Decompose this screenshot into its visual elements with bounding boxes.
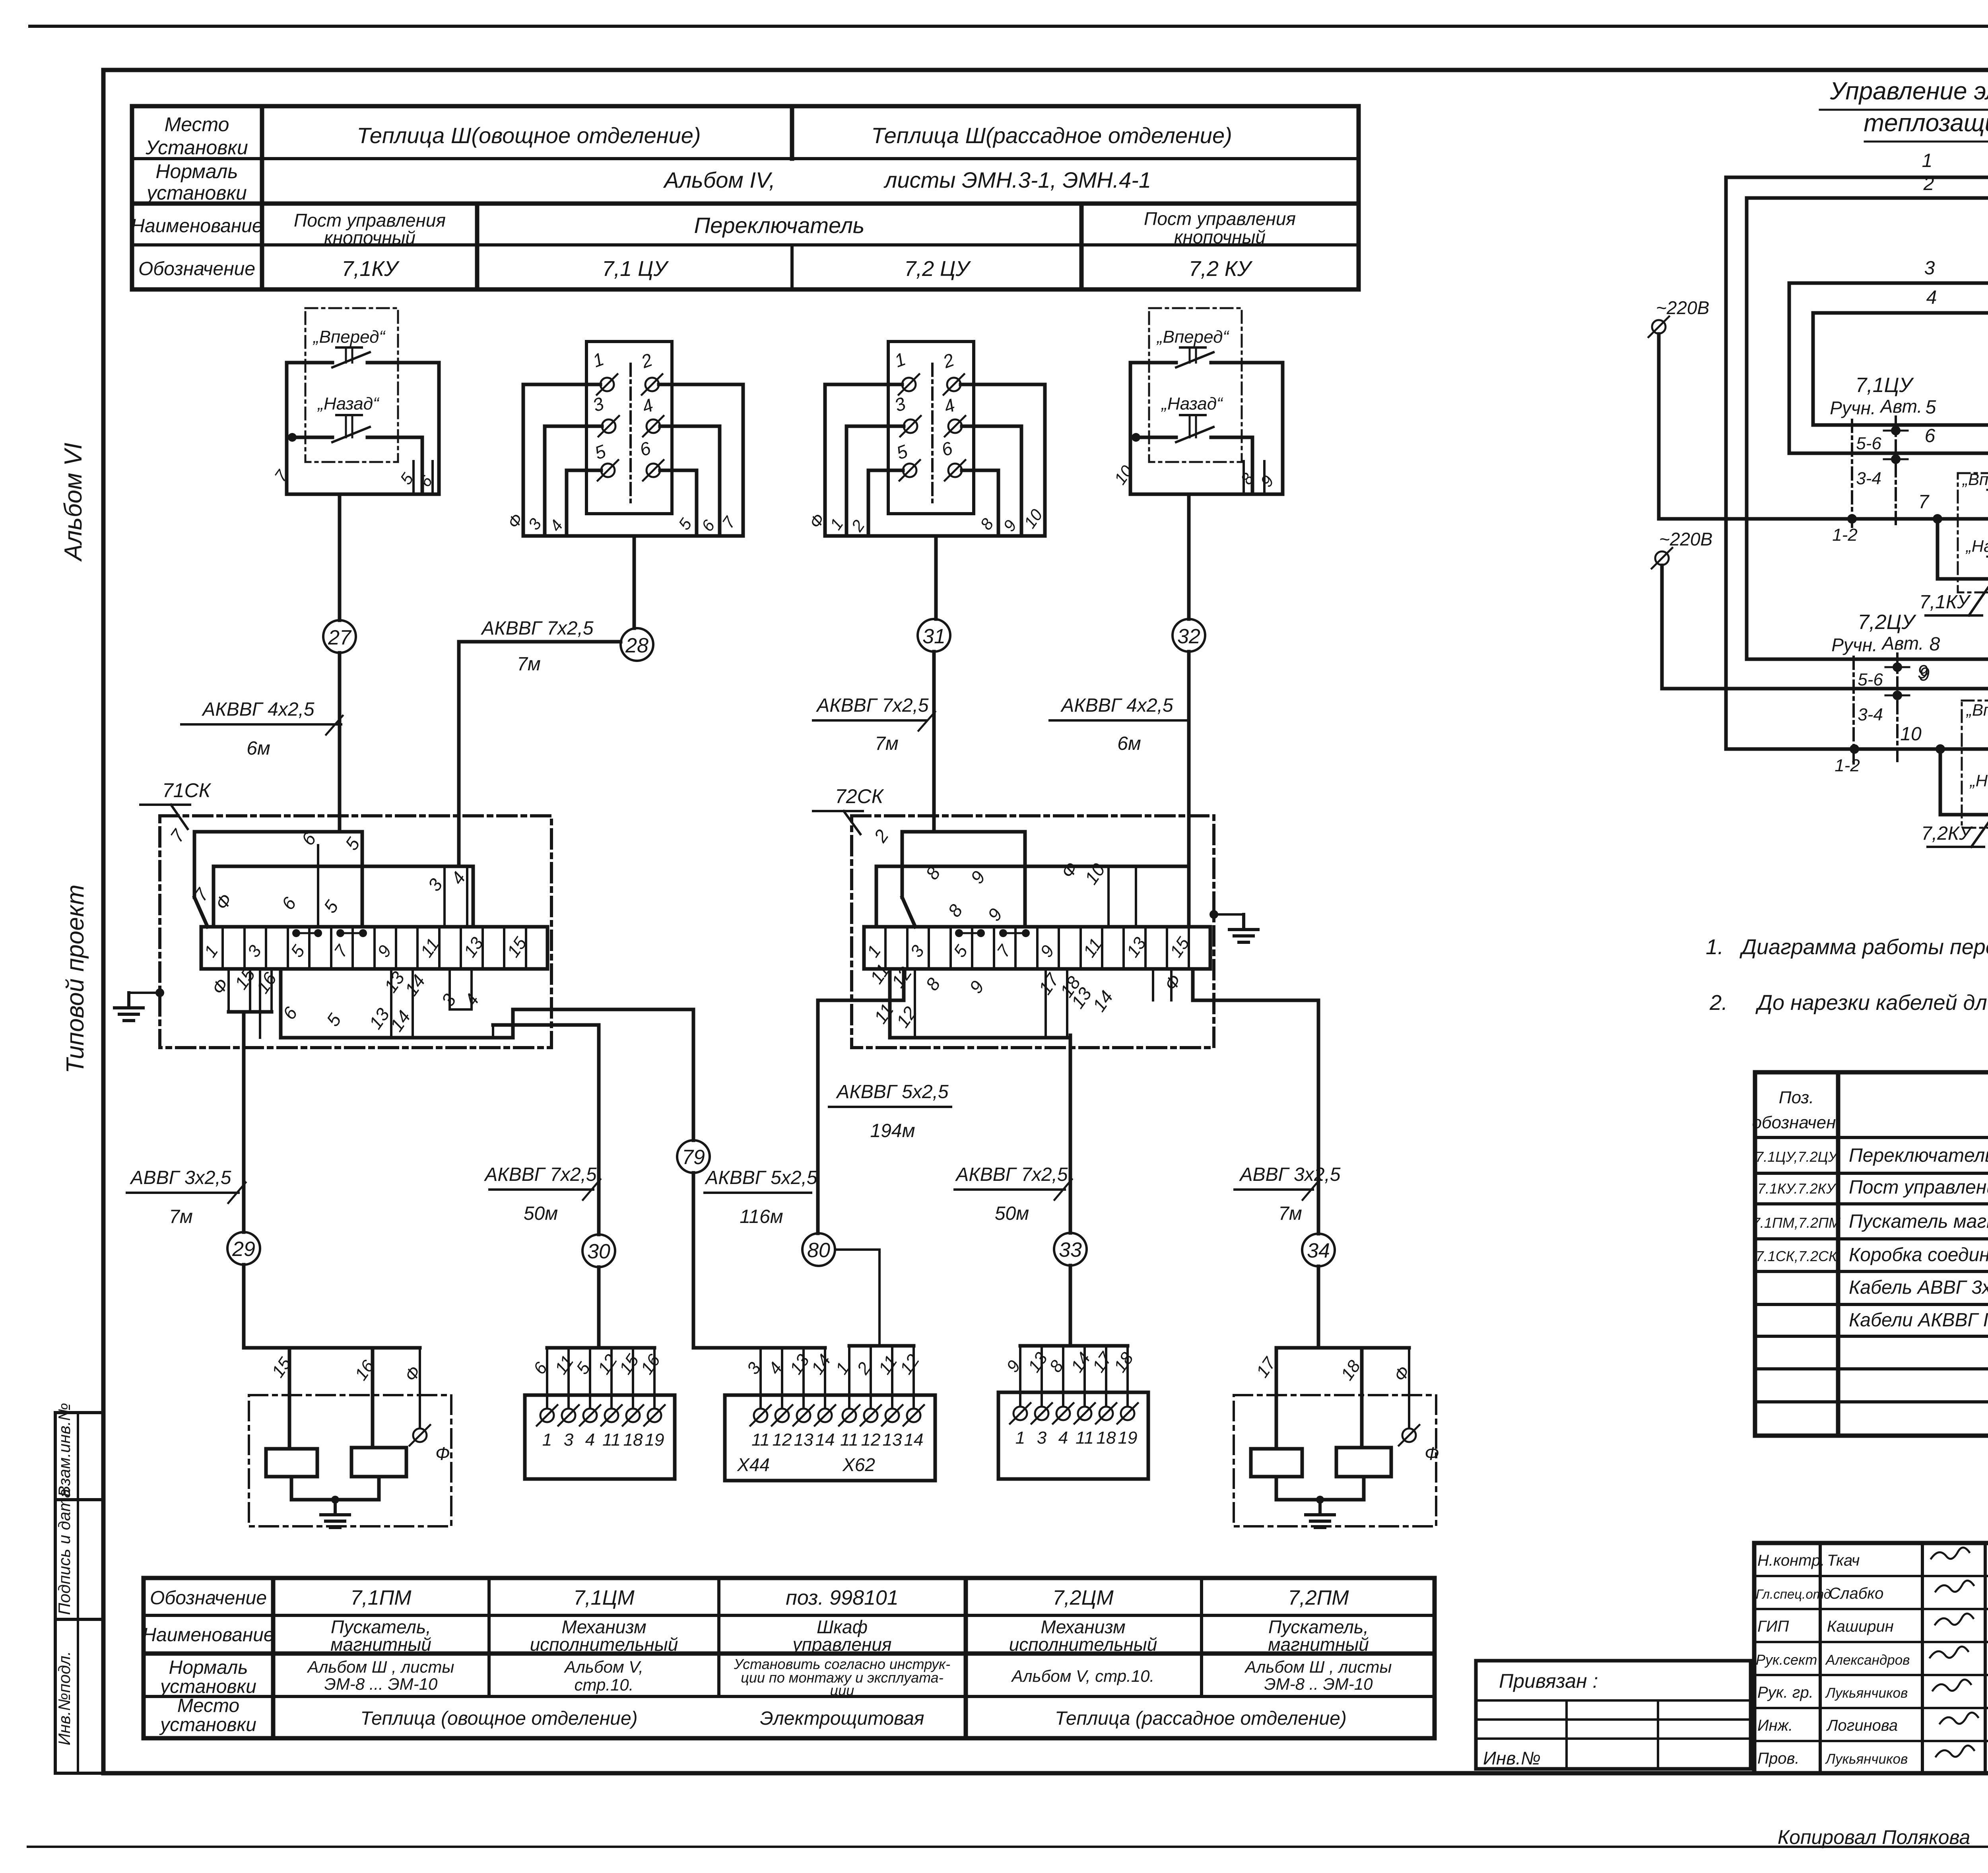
svg-text:11: 11 <box>840 1430 858 1450</box>
svg-text:АКВВГ 7х2,5: АКВВГ 7х2,5 <box>955 1164 1068 1185</box>
svg-text:Пускатель магнитный.: Пускатель магнитный. <box>1849 1211 1988 1232</box>
svg-text:14: 14 <box>815 1430 835 1450</box>
node 27 <box>323 620 356 653</box>
svg-text:исполнительный: исполнительный <box>1009 1634 1157 1655</box>
svg-text:Альбом V,: Альбом V, <box>563 1658 643 1676</box>
svg-text:8: 8 <box>1237 470 1258 488</box>
svg-text:6: 6 <box>1925 425 1936 446</box>
node 79 <box>677 1140 710 1173</box>
svg-text:7м: 7м <box>875 733 899 754</box>
svg-text:обозначен.: обозначен. <box>1752 1113 1840 1132</box>
svg-text:Авт.: Авт. <box>1881 633 1924 654</box>
svg-text:4: 4 <box>585 1430 595 1450</box>
svg-text:Н.контр.: Н.контр. <box>1757 1552 1825 1569</box>
svg-text:„Вперед“: „Вперед“ <box>1962 470 1988 489</box>
wire 72СК to node 33 <box>1069 1035 1072 1233</box>
jumpers <box>955 929 963 937</box>
svg-text:Пост управления кнопочный ПКЕ: Пост управления кнопочный ПКЕ 222-2 <box>1849 1177 1988 1198</box>
svg-text:АКВВГ 5х2,5: АКВВГ 5х2,5 <box>704 1167 817 1188</box>
svg-text:Х44: Х44 <box>737 1454 770 1475</box>
wire Назад 7,2 <box>1940 749 1988 815</box>
svg-text:ГИП: ГИП <box>1757 1618 1789 1635</box>
wire riser 3 to 6 <box>1788 283 1791 453</box>
svg-text:Нормаль: Нормаль <box>155 160 238 182</box>
svg-text:7.1ПМ,7.2ПМ: 7.1ПМ,7.2ПМ <box>1752 1215 1840 1231</box>
wire from node 32 to box 72СК <box>1187 652 1191 866</box>
svg-text:7.1ЦУ,7.2ЦУ: 7.1ЦУ,7.2ЦУ <box>1755 1149 1839 1165</box>
svg-text:5: 5 <box>322 1010 346 1030</box>
svg-text:АКВВГ 7х2,5: АКВВГ 7х2,5 <box>483 1164 597 1185</box>
svg-text:7.1СК,7.2СК: 7.1СК,7.2СК <box>1756 1248 1838 1264</box>
svg-text:Ф: Ф <box>1425 1443 1439 1464</box>
svg-text:12: 12 <box>892 1003 921 1031</box>
svg-text:9: 9 <box>1037 942 1058 961</box>
svg-text:3: 3 <box>244 941 265 961</box>
svg-text:34: 34 <box>1307 1239 1330 1262</box>
parts list table <box>1755 1072 1988 1436</box>
svg-text:6м: 6м <box>1117 733 1141 754</box>
svg-text:1: 1 <box>200 942 222 961</box>
wire from node 28 to box 71СК <box>457 642 461 866</box>
svg-text:14: 14 <box>1089 987 1117 1015</box>
svg-text:Рук. гр.: Рук. гр. <box>1757 1684 1813 1701</box>
svg-text:5: 5 <box>675 515 695 534</box>
push-button station 7,2КУ <box>1110 308 1283 494</box>
svg-text:Лукьянчиков: Лукьянчиков <box>1825 1751 1908 1767</box>
svg-text:Альбом Ш , листы: Альбом Ш , листы <box>307 1658 454 1676</box>
svg-text:Инж.: Инж. <box>1757 1717 1793 1734</box>
wire 3 <box>1789 281 1988 285</box>
svg-text:3: 3 <box>1924 258 1935 279</box>
svg-text:2: 2 <box>870 826 893 846</box>
svg-text:установки: установки <box>159 1714 256 1735</box>
svg-text:поз. 998101: поз. 998101 <box>786 1586 899 1609</box>
svg-text:листы ЭМН.3-1, ЭМН.4-1: листы ЭМН.3-1, ЭМН.4-1 <box>883 167 1151 192</box>
svg-text:4: 4 <box>941 394 958 417</box>
svg-text:4: 4 <box>546 516 567 535</box>
wire 7 <box>1659 334 1988 519</box>
svg-text:Альбом Ш , листы: Альбом Ш , листы <box>1244 1658 1392 1676</box>
svg-text:Копировал Полякова: Копировал Полякова <box>1778 1826 1971 1848</box>
svg-text:Теплица (овощное отделение): Теплица (овощное отделение) <box>360 1708 637 1729</box>
wire 71СК to node 29 <box>242 1012 246 1232</box>
svg-text:6м: 6м <box>247 738 270 759</box>
svg-text:кнопочный: кнопочный <box>324 227 415 248</box>
svg-text:Взам.инв.№: Взам.инв.№ <box>55 1403 74 1497</box>
svg-text:Место: Место <box>177 1695 239 1716</box>
svg-text:8: 8 <box>944 901 967 921</box>
svg-text:11: 11 <box>870 1000 898 1027</box>
svg-text:10: 10 <box>1900 724 1922 745</box>
wire 71СК to node 79 <box>692 1009 695 1140</box>
svg-text:72СК: 72СК <box>835 785 884 807</box>
svg-text:1: 1 <box>1922 150 1933 171</box>
svg-text:Альбом VI: Альбом VI <box>60 443 87 562</box>
svg-text:„Назад“: „Назад“ <box>1965 537 1988 555</box>
svg-text:3: 3 <box>424 875 447 895</box>
svg-text:6: 6 <box>278 893 301 914</box>
svg-text:116м: 116м <box>740 1206 783 1227</box>
terminal strip 72СК <box>864 927 1210 969</box>
svg-text:5: 5 <box>1926 397 1936 418</box>
svg-text:~220В: ~220В <box>1659 529 1712 549</box>
svg-text:„Назад“: „Назад“ <box>317 394 380 413</box>
svg-text:50м: 50м <box>995 1203 1029 1224</box>
wire 72СК to node 34 <box>1317 1000 1320 1234</box>
svg-text:Наименование: Наименование <box>131 215 262 237</box>
svg-text:27: 27 <box>328 626 352 649</box>
svg-text:Теплица (рассадное отделение): Теплица (рассадное отделение) <box>1055 1708 1347 1729</box>
internal traces top <box>194 832 362 927</box>
svg-text:2: 2 <box>638 349 655 372</box>
wire 5 <box>1813 425 1988 774</box>
svg-text:29: 29 <box>232 1238 255 1261</box>
svg-text:Пост управления: Пост управления <box>1144 208 1296 229</box>
node 30 <box>582 1234 615 1267</box>
junction box 72СК <box>852 816 1214 1048</box>
svg-text:3: 3 <box>590 393 607 416</box>
svg-text:Гл.спец.отд: Гл.спец.отд <box>1756 1587 1831 1601</box>
svg-text:1: 1 <box>863 942 885 961</box>
svg-text:11: 11 <box>751 1430 770 1450</box>
wire from node 27 to box 71СК <box>338 653 342 832</box>
svg-text:Место: Место <box>165 113 229 136</box>
svg-text:28: 28 <box>625 634 648 657</box>
svg-text:3-4: 3-4 <box>1858 705 1883 724</box>
svg-text:Логинова: Логинова <box>1826 1717 1898 1734</box>
svg-text:4: 4 <box>1926 287 1937 308</box>
svg-text:магнитный: магнитный <box>1268 1634 1369 1655</box>
svg-text:Ручн.: Ручн. <box>1831 635 1877 655</box>
svg-text:Слабко: Слабко <box>1829 1585 1883 1602</box>
svg-text:установки: установки <box>146 182 247 204</box>
svg-text:7м: 7м <box>517 654 541 675</box>
svg-text:31: 31 <box>922 625 945 648</box>
wire 8 <box>1747 658 1988 661</box>
svg-text:Типовой проект: Типовой проект <box>62 885 89 1073</box>
svg-text:Инв.№подл.: Инв.№подл. <box>55 1651 74 1745</box>
svg-text:1.: 1. <box>1706 935 1724 959</box>
sheet top edge <box>30 25 1988 28</box>
svg-text:80: 80 <box>807 1239 830 1262</box>
svg-text:3-4: 3-4 <box>1856 469 1881 488</box>
svg-text:АВВГ 3х2,5: АВВГ 3х2,5 <box>1239 1164 1341 1185</box>
bottom equipment table <box>142 1578 1435 1738</box>
svg-text:2: 2 <box>940 349 957 372</box>
svg-text:Управление электроприводами: Управление электроприводами <box>1830 78 1988 105</box>
svg-text:7: 7 <box>718 513 740 532</box>
svg-text:1: 1 <box>590 348 607 371</box>
svg-text:3: 3 <box>564 1430 574 1450</box>
wire 4 <box>1813 311 1988 315</box>
svg-text:5-6: 5-6 <box>1858 670 1883 689</box>
svg-text:6: 6 <box>939 437 955 460</box>
svg-text:3: 3 <box>892 393 909 416</box>
svg-text:7.1КУ.7.2КУ: 7.1КУ.7.2КУ <box>1757 1180 1837 1197</box>
svg-text:5: 5 <box>592 441 609 464</box>
svg-text:7,1ЦМ: 7,1ЦМ <box>573 1586 635 1609</box>
node 28 <box>621 628 653 661</box>
svg-text:„Назад“: „Назад“ <box>1161 394 1223 413</box>
svg-text:Ф: Ф <box>1160 970 1186 994</box>
svg-text:1-2: 1-2 <box>1832 525 1858 545</box>
svg-text:7,1КУ: 7,1КУ <box>342 257 400 281</box>
svg-text:Привязан :: Привязан : <box>1499 1670 1598 1692</box>
svg-text:установки: установки <box>159 1676 256 1697</box>
wire from node 31 to box 72СК <box>932 652 936 832</box>
svg-text:2: 2 <box>847 516 868 535</box>
svg-text:14: 14 <box>808 1351 835 1378</box>
svg-text:Альбом IV,: Альбом IV, <box>663 167 775 192</box>
svg-text:Установки: Установки <box>145 136 248 159</box>
svg-text:Ф: Ф <box>401 1363 425 1385</box>
node 33 <box>1054 1233 1087 1265</box>
wire 72СК to node 80 <box>816 1000 820 1233</box>
svg-text:16: 16 <box>637 1351 664 1378</box>
svg-text:14: 14 <box>401 971 429 1000</box>
ground 71СК <box>155 988 164 997</box>
svg-text:7: 7 <box>166 825 189 846</box>
svg-text:Ткач: Ткач <box>1827 1552 1860 1569</box>
svg-text:79: 79 <box>682 1146 705 1169</box>
svg-text:АКВВГ 7х2,5: АКВВГ 7х2,5 <box>815 695 929 716</box>
svg-text:18: 18 <box>623 1430 643 1450</box>
wire 6 <box>1789 453 1988 519</box>
svg-text:11: 11 <box>1076 1428 1094 1448</box>
svg-text:~220В: ~220В <box>1656 297 1709 318</box>
svg-text:7,2 КУ: 7,2 КУ <box>1189 257 1253 281</box>
wires out of 71СК <box>513 1008 693 1011</box>
svg-text:9: 9 <box>965 977 988 997</box>
wire 71СК to node 30 <box>597 1025 601 1234</box>
svg-text:9: 9 <box>374 942 395 961</box>
packet switch 7,2ЦУ <box>806 342 1046 536</box>
svg-text:8: 8 <box>1930 634 1940 655</box>
svg-text:Рук.сект: Рук.сект <box>1756 1652 1817 1668</box>
svg-text:Переключатель пакетный ПКП25-4: Переключатель пакетный ПКП25-44-13-У2 <box>1849 1145 1988 1166</box>
control cabinet terminals X44 X62 <box>693 1346 935 1481</box>
svg-text:Переключатель: Переключатель <box>694 213 865 238</box>
svg-text:33: 33 <box>1059 1238 1082 1262</box>
wire riser 1 to 10 <box>1724 177 1728 749</box>
svg-text:Инв.№: Инв.№ <box>1483 1748 1541 1768</box>
svg-text:АКВВГ 4х2,5: АКВВГ 4х2,5 <box>1060 695 1173 716</box>
svg-text:7,1КУ: 7,1КУ <box>1919 592 1971 613</box>
svg-text:7,2ЦУ: 7,2ЦУ <box>1858 611 1916 634</box>
svg-text:Х62: Х62 <box>842 1454 875 1475</box>
internal traces bottom <box>818 969 904 1000</box>
svg-text:17: 17 <box>1035 969 1064 998</box>
svg-text:Ф: Ф <box>435 1443 450 1464</box>
svg-text:АКВВГ 7х2,5: АКВВГ 7х2,5 <box>480 618 594 639</box>
svg-text:7: 7 <box>330 941 352 961</box>
svg-text:9: 9 <box>1000 516 1020 535</box>
svg-text:кнопочный: кнопочный <box>1174 227 1266 247</box>
svg-text:1: 1 <box>1015 1428 1025 1448</box>
svg-text:12: 12 <box>861 1430 881 1450</box>
svg-text:13: 13 <box>794 1430 813 1450</box>
svg-text:1: 1 <box>542 1430 552 1450</box>
svg-text:Александров: Александров <box>1825 1652 1910 1668</box>
svg-text:7: 7 <box>993 941 1015 961</box>
title block <box>1754 1543 1988 1773</box>
svg-text:7,1ЦУ: 7,1ЦУ <box>1855 374 1914 397</box>
jumpers <box>292 929 300 937</box>
svg-text:ЭМ-8 .. ЭМ-10: ЭМ-8 .. ЭМ-10 <box>1264 1675 1373 1693</box>
terminal strip 71СК <box>201 927 547 969</box>
svg-text:7,2ПМ: 7,2ПМ <box>1288 1586 1349 1609</box>
wire Назад 7,1 <box>1938 519 1988 579</box>
svg-text:194м: 194м <box>870 1120 915 1141</box>
push-button station 7,1КУ <box>271 308 439 494</box>
svg-text:9: 9 <box>1257 472 1277 490</box>
svg-text:11: 11 <box>602 1430 621 1450</box>
attachment box Привязан <box>1476 1661 1751 1769</box>
wire from 7,1КУ to node 27 <box>338 494 342 620</box>
svg-text:АВВГ 3х2,5: АВВГ 3х2,5 <box>130 1167 231 1188</box>
svg-text:Теплица Ш(овощное отделение): Теплица Ш(овощное отделение) <box>357 123 701 148</box>
svg-text:32: 32 <box>1177 625 1200 648</box>
junction box 71СК <box>160 816 551 1048</box>
svg-text:7м: 7м <box>1278 1203 1302 1224</box>
wire 9 <box>1662 565 1988 689</box>
svg-text:3: 3 <box>524 515 545 533</box>
svg-text:2.: 2. <box>1709 991 1728 1015</box>
svg-text:Кабель АВВГ 3х2,5 ГОСТ 16442-8: Кабель АВВГ 3х2,5 ГОСТ 16442-80 <box>1849 1277 1988 1298</box>
svg-text:18: 18 <box>1110 1349 1138 1376</box>
svg-text:Обозначение: Обозначение <box>150 1588 267 1609</box>
svg-text:Обозначение: Обозначение <box>138 258 255 279</box>
svg-text:Коробка соединительная КСК-16Т: Коробка соединительная КСК-16ТУ36.1073-7… <box>1849 1244 1988 1265</box>
svg-text:9: 9 <box>967 867 989 887</box>
svg-text:12: 12 <box>896 1351 923 1378</box>
svg-text:теплозащитного экрана.: теплозащитного экрана. <box>1864 109 1988 137</box>
terminal box 7,1ЦМ <box>525 1348 675 1479</box>
svg-text:„Вперед“: „Вперед“ <box>1966 701 1988 719</box>
svg-text:Диаграмма работы переключател: Диаграмма работы переключателей дана на … <box>1739 935 1988 959</box>
svg-text:ЭМ-8 ... ЭМ-10: ЭМ-8 ... ЭМ-10 <box>324 1675 438 1693</box>
svg-text:7: 7 <box>271 466 292 485</box>
top-left equipment table <box>131 106 1359 289</box>
svg-text:5-6: 5-6 <box>1856 434 1881 453</box>
svg-text:„Назад“: „Назад“ <box>1969 771 1988 790</box>
svg-text:14: 14 <box>904 1430 924 1450</box>
svg-text:Наименование: Наименование <box>142 1625 274 1646</box>
svg-text:исполнительный: исполнительный <box>530 1634 678 1655</box>
magnetic starter 7,1ПМ <box>244 1348 451 1528</box>
magnetic starter 7,2ПМ <box>1234 1348 1439 1528</box>
svg-text:Лукьянчиков: Лукьянчиков <box>1825 1685 1908 1701</box>
svg-text:Кабели АКВВГ ГОСТ 1508-78: Кабели АКВВГ ГОСТ 1508-78 <box>1849 1310 1988 1331</box>
svg-text:Ручн.: Ручн. <box>1830 398 1876 418</box>
svg-text:2: 2 <box>1923 173 1934 194</box>
wire 10 <box>1726 747 1988 751</box>
svg-text:Пров.: Пров. <box>1757 1750 1799 1767</box>
svg-text:5: 5 <box>320 897 343 917</box>
svg-text:„Вперед“: „Вперед“ <box>1156 327 1229 347</box>
svg-text:8: 8 <box>922 974 945 994</box>
svg-text:1-2: 1-2 <box>1835 756 1860 775</box>
node 80 <box>802 1233 835 1266</box>
svg-text:3: 3 <box>907 941 928 961</box>
left margin stamp boxes <box>55 1413 103 1773</box>
svg-text:Электрощитовая: Электрощитовая <box>760 1708 924 1729</box>
svg-text:13: 13 <box>883 1430 902 1450</box>
svg-text:Теплица Ш(рассадное отделение): Теплица Ш(рассадное отделение) <box>871 123 1232 148</box>
svg-text:До нарезки кабелей длины тр: До нарезки кабелей длины трасс уточнить … <box>1755 991 1988 1015</box>
svg-text:1: 1 <box>892 348 909 371</box>
packet switch 7,1ЦУ <box>504 342 743 536</box>
svg-text:Каширин: Каширин <box>1827 1618 1894 1635</box>
svg-text:Нормаль: Нормаль <box>169 1657 248 1678</box>
svg-text:50м: 50м <box>524 1203 558 1224</box>
push-button 7,1КУ <box>1958 473 1988 592</box>
svg-text:19: 19 <box>645 1430 664 1450</box>
wire 1 <box>1726 176 1988 179</box>
svg-text:19: 19 <box>1118 1428 1138 1448</box>
svg-text:7,2ЦМ: 7,2ЦМ <box>1052 1586 1114 1609</box>
svg-text:30: 30 <box>587 1240 610 1263</box>
wire from 7,2КУ to node 32 <box>1187 494 1191 619</box>
svg-text:5: 5 <box>287 941 309 961</box>
svg-text:12: 12 <box>773 1430 792 1450</box>
svg-text:АКВВГ 5х2,5: АКВВГ 5х2,5 <box>835 1081 949 1102</box>
svg-text:9: 9 <box>984 904 1006 925</box>
svg-text:7м: 7м <box>169 1206 193 1227</box>
svg-text:ции: ции <box>830 1682 854 1698</box>
svg-text:10: 10 <box>1110 462 1137 488</box>
svg-text:7,1ПМ: 7,1ПМ <box>350 1586 412 1609</box>
svg-text:7,2КУ: 7,2КУ <box>1921 823 1973 844</box>
svg-text:9: 9 <box>1919 664 1930 685</box>
svg-text:Ф: Ф <box>1390 1363 1414 1385</box>
svg-text:5: 5 <box>950 941 971 961</box>
svg-text:4: 4 <box>1058 1428 1068 1448</box>
terminal box 7,2ЦМ <box>998 1346 1148 1479</box>
svg-text:7,1 ЦУ: 7,1 ЦУ <box>602 257 669 281</box>
svg-text:стр.10.: стр.10. <box>575 1675 634 1694</box>
ground 72СК <box>1209 910 1218 919</box>
wire riser 2 to 8 <box>1745 198 1749 659</box>
svg-text:7: 7 <box>1918 491 1930 512</box>
svg-text:8: 8 <box>977 515 997 534</box>
svg-text:АКВВГ 4х2,5: АКВВГ 4х2,5 <box>201 699 315 720</box>
svg-text:Ф: Ф <box>1057 858 1082 882</box>
svg-text:4: 4 <box>639 394 656 417</box>
svg-text:3: 3 <box>1037 1428 1047 1448</box>
svg-text:Авт.: Авт. <box>1879 396 1922 417</box>
svg-text:18: 18 <box>1097 1428 1116 1448</box>
svg-text:„Вперед“: „Вперед“ <box>313 327 386 347</box>
svg-text:16: 16 <box>252 969 281 997</box>
node 34 <box>1302 1234 1335 1266</box>
svg-text:10: 10 <box>1020 505 1046 532</box>
svg-text:7,2 ЦУ: 7,2 ЦУ <box>904 257 971 281</box>
node 29 <box>227 1232 260 1265</box>
node 31 <box>918 619 950 652</box>
svg-text:Поз.: Поз. <box>1779 1088 1814 1107</box>
wire to node 31 <box>934 536 938 619</box>
sheet bottom edge <box>28 1846 1988 1848</box>
internal traces bottom <box>227 969 230 1012</box>
svg-text:6: 6 <box>637 437 654 460</box>
svg-text:5: 5 <box>341 834 364 854</box>
node 32 <box>1173 619 1205 652</box>
svg-text:управления: управления <box>792 1634 892 1655</box>
svg-text:71СК: 71СК <box>162 779 212 802</box>
svg-text:1: 1 <box>826 515 847 533</box>
push-button 7,2КУ <box>1962 701 1988 828</box>
